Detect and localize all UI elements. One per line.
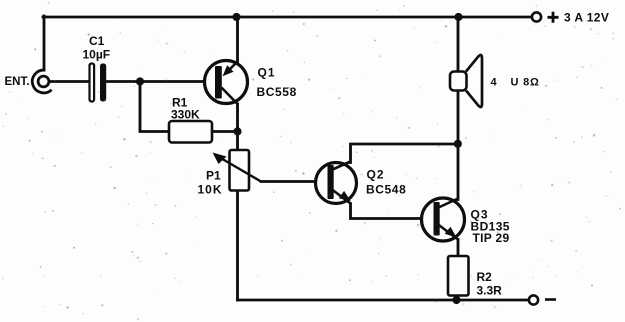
resistor R1 [169,121,212,143]
wire node junction down [140,82,169,132]
wire R1 to node [212,130,238,133]
transistor Q2 [316,162,357,204]
svg-text:C1: C1 [89,34,105,48]
wire Q2 emitter to Q3 base [351,204,433,219]
svg-text:10µF: 10µF [83,48,111,62]
node R1 / Q1 collector / P1 [233,127,241,135]
wire bottom rail [238,299,530,302]
wire R2 to bottom rail [457,296,460,301]
wire speaker rail [457,17,460,144]
capacitor C1 [90,64,107,102]
wire wiper to Q2 base [261,180,327,183]
wire top rail [43,16,532,19]
svg-text:10K: 10K [198,183,223,197]
node speaker / top rail [454,13,462,21]
terminal minus [529,295,538,304]
terminal +12V [532,12,541,21]
input jack ENT. [32,70,51,93]
svg-text:P1: P1 [206,169,221,183]
svg-text:Q2: Q2 [367,168,385,182]
wire P1 bottom to bottom rail [236,191,239,301]
resistor R2 [448,256,469,296]
wire C1 to Q1 base [106,80,215,83]
node speaker / Q2 / Q3 collectors [454,140,462,148]
svg-text:R2: R2 [477,270,493,284]
svg-text:4: 4 [491,77,498,89]
potentiometer P1 [213,150,262,191]
speaker [450,55,482,107]
wire Q1 collector to node [236,104,239,150]
svg-text:BC548: BC548 [366,183,406,197]
node C1 / R1 / Q1 base [136,77,144,85]
svg-text:3.3R: 3.3R [477,284,503,298]
wire Q2 collector up and right [351,144,459,163]
svg-text:ENT.: ENT. [5,76,30,88]
svg-text:BC558: BC558 [257,85,297,99]
svg-text:TIP 29: TIP 29 [473,231,510,245]
wire left vertical to input [43,16,46,70]
transistor Q3 [422,198,465,241]
svg-text:330K: 330K [171,108,200,122]
svg-text:U 8Ω: U 8Ω [511,77,540,89]
wire Q3 emitter to R2 [457,240,460,257]
transistor Q1 [205,61,248,105]
svg-text:3 A 12V: 3 A 12V [564,11,609,25]
wire input to C1 [49,80,89,83]
node R2 / bottom rail [452,296,460,304]
label minus [545,298,556,301]
node Q1 emitter / top rail [232,13,240,21]
wire Q3 collector up [457,144,460,200]
label +3A 12V [548,12,559,23]
wire Q1 emitter to top rail [236,17,239,62]
svg-text:Q1: Q1 [258,66,276,80]
